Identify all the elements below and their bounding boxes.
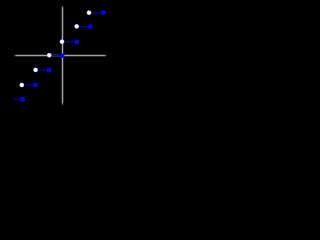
open dot (0,1) — [60, 39, 65, 44]
segment y=-3 line (clipped at window edge) — [14, 99, 22, 100]
segment y=1 line — [62, 41, 77, 42]
closed square (1,1) — [75, 40, 79, 44]
closed square (0,0) — [60, 54, 64, 58]
open dot (1,2) — [74, 24, 79, 29]
segment y=-2 line — [22, 84, 36, 85]
segment y=0 line — [49, 55, 62, 56]
segment y=-1 line — [36, 70, 49, 71]
closed square (3,3) — [101, 11, 105, 15]
closed square (-1,-1) — [47, 68, 51, 72]
segment y=3 line — [89, 12, 104, 13]
open dot (2,3) — [87, 10, 92, 15]
closed square (2,2) — [88, 24, 92, 28]
closed square (-2,-2) — [33, 83, 37, 87]
open dot (-1,0) — [47, 53, 52, 58]
background — [0, 0, 120, 120]
x-axis — [13, 55, 107, 57]
segment y=2 line — [77, 26, 91, 27]
y-axis — [62, 5, 64, 105]
open dot (-2,-1) — [33, 67, 38, 72]
closed square (-3,-3) — [20, 97, 24, 101]
open dot (-3,-2) — [19, 83, 24, 88]
